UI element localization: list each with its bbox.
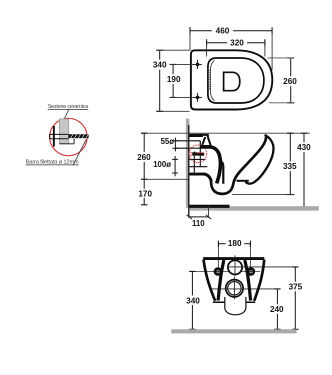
hinge base bar [200, 145, 212, 148]
outlet bottom bar [189, 173, 205, 176]
bowl U and rising inner surface [211, 137, 266, 194]
dimension 260 side [141, 133, 189, 205]
svg-text:100ø: 100ø [153, 160, 171, 169]
outlet circle outer [226, 280, 243, 297]
ledge step lines [59, 139, 74, 144]
svg-text:320: 320 [230, 39, 244, 48]
outlet cross ext line [212, 288, 278, 290]
wall [186, 119, 189, 208]
floor rear view [171, 329, 296, 333]
ceramic section gray bar [59, 119, 68, 144]
red detail circle large [50, 118, 88, 156]
inlet circle [228, 260, 242, 274]
seat inner thin line [210, 60, 214, 100]
seat ring outline [208, 58, 264, 103]
svg-text:240: 240 [270, 305, 284, 314]
55 pipe lines [175, 141, 200, 148]
fixing bar blocks [192, 152, 197, 155]
dimension 375 rear [292, 267, 298, 329]
rear outline right side [254, 260, 264, 301]
fixing dot right [247, 267, 256, 276]
dimension 170 side [137, 189, 153, 198]
outlet cross [225, 277, 243, 299]
fixing dot cross line [192, 270, 260, 272]
fixing dot left [214, 267, 223, 276]
dimension 460 [190, 27, 272, 70]
trap band curve [200, 147, 220, 184]
rear inner band right [245, 260, 251, 301]
threaded rod hatched [68, 134, 88, 138]
drain cylinder [225, 297, 246, 315]
svg-text:180: 180 [228, 239, 242, 248]
dimension 320 [207, 39, 265, 56]
rear inner band left [218, 260, 224, 301]
red detail circle dashed [189, 145, 207, 163]
notch [203, 136, 207, 137]
dimension 335 [232, 133, 295, 194]
wc outer outline top view [191, 50, 272, 109]
dimension 340 top view [156, 50, 190, 111]
rear outline top edge [203, 257, 264, 260]
floor side view black segment [189, 205, 229, 208]
svg-text:335: 335 [283, 162, 297, 171]
hook curve [204, 174, 211, 181]
wall face line [188, 125, 190, 218]
svg-text:460: 460 [216, 27, 230, 36]
dimension 180 [218, 241, 250, 247]
dimension 430 [301, 133, 308, 206]
svg-text:170: 170 [138, 189, 152, 198]
dimension 100ø [172, 156, 178, 176]
inlet cross + 375 ext line [227, 255, 295, 276]
hatch dashes on seat inner line [209, 71, 211, 89]
rear bottom edges [213, 301, 255, 303]
bowl underside line [237, 180, 249, 182]
dimension 55ø [172, 138, 178, 152]
dimension 110 [187, 206, 212, 219]
svg-text:190: 190 [167, 75, 181, 84]
trap leg [221, 161, 224, 184]
leader line upper [63, 110, 68, 122]
svg-text:110: 110 [192, 219, 205, 228]
fixing hole marker bottom [193, 93, 202, 102]
svg-text:260: 260 [137, 153, 151, 162]
threaded rod lines left [50, 134, 69, 140]
svg-text:340: 340 [153, 61, 167, 70]
svg-text:375: 375 [289, 283, 303, 292]
fixing hole marker top [193, 60, 202, 69]
svg-text:340: 340 [186, 296, 200, 305]
dimension 260 top view right [268, 58, 295, 103]
black vertical line [53, 126, 55, 147]
seat hinge wedge [202, 137, 210, 145]
svg-text:430: 430 [297, 143, 311, 152]
rear outline left side [204, 260, 216, 301]
floor side view gray [189, 206, 318, 210]
cistern top bar [189, 134, 209, 137]
top reference extension line [141, 132, 310, 134]
leader line lower [73, 140, 86, 166]
dimension 340 rear [189, 271, 195, 329]
dimension 190 top view [170, 64, 194, 97]
svg-text:260: 260 [283, 77, 297, 86]
inner pipe lines [189, 148, 207, 172]
outlet circle inner [228, 282, 241, 295]
D shaped bowl hole [224, 72, 240, 90]
180 ext lines down to fixing dots [218, 244, 250, 272]
red threaded bar lines [190, 153, 204, 155]
front rim outer curve [245, 135, 273, 184]
dimension 240 rear [274, 289, 280, 329]
svg-text:55ø: 55ø [161, 137, 175, 146]
